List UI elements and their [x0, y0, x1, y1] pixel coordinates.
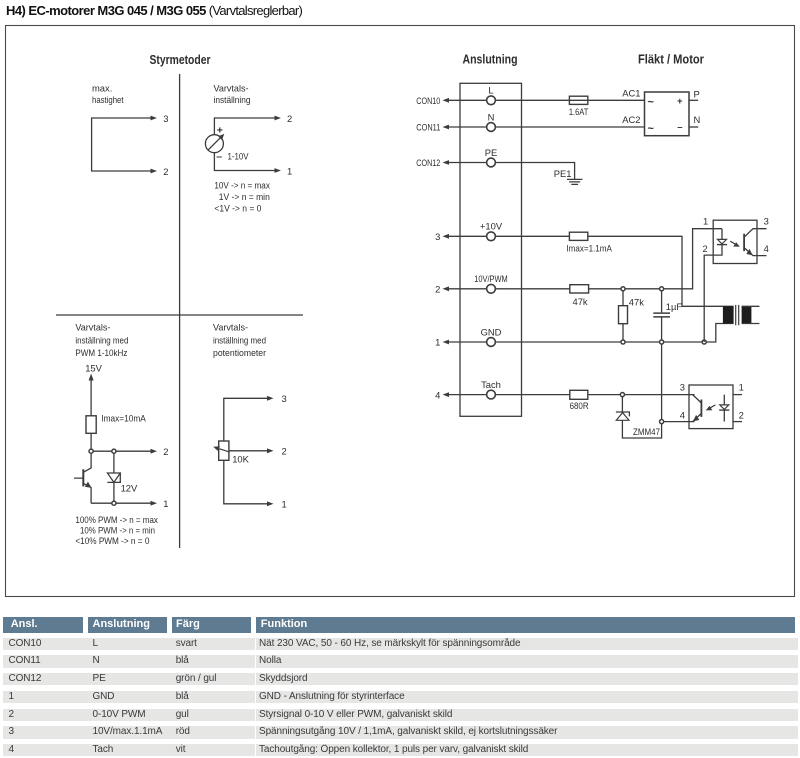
svg-text:inställning med: inställning med — [75, 334, 128, 345]
wire L to motor AC1 — [495, 99, 644, 101]
svg-text:4: 4 — [764, 243, 769, 254]
svg-text:~: ~ — [648, 123, 655, 135]
svg-text:inställning: inställning — [214, 94, 251, 105]
svg-text:ZMM47: ZMM47 — [633, 426, 660, 437]
quadrant divider vertical — [179, 74, 181, 548]
svg-text:Imax=1.1mA: Imax=1.1mA — [566, 242, 612, 253]
arrow to pin 3 — [151, 116, 158, 121]
svg-text:–: – — [677, 122, 682, 133]
svg-text:100% PWM -> n = max: 100% PWM -> n = max — [75, 514, 158, 525]
resistor 680R — [570, 390, 588, 399]
node A — [89, 449, 93, 453]
wire 1 (GND) — [449, 341, 487, 343]
svg-text:Varvtals-: Varvtals- — [75, 322, 110, 333]
svg-text:2: 2 — [739, 409, 744, 420]
wire 10V/PWM to opto pin1 — [495, 229, 722, 289]
svg-text:47k: 47k — [629, 297, 644, 308]
terminal L — [487, 96, 496, 105]
transistor Q1 — [74, 451, 91, 503]
wire opto U2 pin2 — [733, 421, 742, 423]
svg-text:CON12: CON12 — [416, 157, 440, 168]
voltage source V1 1-10V — [205, 135, 223, 153]
svg-text:Imax=10mA: Imax=10mA — [101, 412, 146, 423]
terminal 10V/PWM — [487, 284, 496, 293]
document title — [6, 3, 302, 18]
svg-text:3: 3 — [764, 216, 769, 227]
svg-text:3: 3 — [163, 113, 168, 124]
svg-text:2: 2 — [282, 446, 287, 457]
junction GND-opto pin2 — [702, 340, 706, 344]
svg-text:4: 4 — [680, 409, 685, 420]
svg-text:2: 2 — [435, 284, 440, 295]
svg-text:12V: 12V — [121, 483, 138, 494]
svg-text:N: N — [694, 114, 701, 125]
opto U1 LED — [721, 229, 723, 240]
terminal N — [487, 123, 496, 132]
svg-text:10% PWM -> n = min: 10% PWM -> n = min — [80, 524, 155, 535]
wire pot wiper to pin 2 — [229, 450, 267, 452]
svg-text:P: P — [694, 88, 700, 99]
svg-text:<1V -> n = 0: <1V -> n = 0 — [214, 203, 261, 214]
svg-text:10V -> n = max: 10V -> n = max — [214, 179, 270, 190]
wire resistor to node — [90, 433, 92, 451]
svg-text:GND: GND — [481, 326, 502, 337]
transformer T1 — [723, 306, 734, 323]
wire motor P — [689, 99, 698, 101]
svg-text:1: 1 — [163, 498, 168, 509]
wire to pin 1 — [214, 153, 274, 171]
resistor 47k shunt — [622, 289, 624, 306]
svg-text:+10V: +10V — [480, 221, 503, 232]
wire opto U2 pin1 — [733, 394, 742, 396]
node C — [112, 501, 116, 505]
potentiometer 10K — [219, 441, 229, 460]
junction pin4-zener — [660, 420, 664, 424]
svg-text:max.: max. — [92, 82, 112, 93]
svg-text:–: – — [216, 151, 222, 163]
svg-text:10K: 10K — [232, 453, 249, 464]
opto U1 light arrow — [730, 241, 736, 244]
junction 10V/PWM-1uF — [660, 287, 664, 291]
opto U2 — [689, 385, 733, 429]
opto U2 LED — [723, 395, 725, 405]
fuse F1 1.6AT — [569, 96, 587, 104]
ground PE1 — [567, 179, 582, 184]
svg-text:3: 3 — [282, 393, 287, 404]
svg-text:~: ~ — [648, 97, 655, 109]
terminal GND — [487, 338, 496, 347]
svg-text:1: 1 — [703, 216, 708, 227]
svg-text:10V/PWM: 10V/PWM — [474, 273, 508, 284]
connector box — [460, 83, 522, 416]
opto U2 transistor — [700, 400, 702, 417]
svg-text:15V: 15V — [85, 362, 102, 373]
quadrant divider horizontal — [56, 314, 303, 316]
svg-text:PE1: PE1 — [554, 168, 572, 179]
svg-text:inställning med: inställning med — [213, 334, 266, 345]
wire opto2 pin4 — [662, 421, 695, 423]
arrow to pin 2 — [151, 169, 158, 174]
terminal PE — [487, 158, 496, 167]
node B — [112, 449, 116, 453]
svg-text:1: 1 — [435, 337, 440, 348]
wire motor N — [689, 126, 698, 128]
terminal Tach — [487, 390, 496, 399]
resistor Imax=1.1mA — [569, 232, 587, 240]
table — [0, 0, 1, 1]
svg-text:1: 1 — [287, 165, 292, 176]
svg-text:2: 2 — [163, 446, 168, 457]
zener diode 12V — [113, 451, 115, 473]
wire 4 (Tach) — [449, 394, 487, 396]
svg-text:47k: 47k — [573, 296, 588, 307]
wire GND to transformer — [495, 324, 733, 343]
svg-text:2: 2 — [702, 243, 707, 254]
wire CON11-N — [449, 126, 487, 128]
wire bracket max-speed — [92, 118, 151, 171]
svg-text:Styrmetoder: Styrmetoder — [150, 53, 211, 67]
svg-text:PWM 1-10kHz: PWM 1-10kHz — [75, 347, 127, 358]
opto U1 — [713, 220, 757, 263]
wire pot to pin 3 — [224, 398, 267, 441]
svg-text:L: L — [488, 85, 493, 96]
svg-text:2: 2 — [163, 166, 168, 177]
wire Tach to opto2 pin3 — [495, 394, 694, 396]
wire pot to pin 1 — [224, 460, 267, 504]
wire to pin 2 — [214, 118, 274, 135]
svg-text:1: 1 — [282, 499, 287, 510]
junction GND-47k — [621, 340, 625, 344]
svg-text:hastighet: hastighet — [92, 94, 124, 105]
wire bottom rail to pin 1 — [91, 502, 150, 504]
wire CON12-PE — [449, 162, 487, 164]
svg-text:<10% PWM -> n = 0: <10% PWM -> n = 0 — [75, 535, 149, 546]
svg-text:1µF: 1µF — [666, 301, 683, 312]
svg-text:1V -> n = min: 1V -> n = min — [219, 191, 270, 202]
svg-text:Fläkt / Motor: Fläkt / Motor — [638, 53, 704, 67]
svg-text:3: 3 — [680, 382, 685, 393]
wire 15V to resistor — [90, 380, 92, 416]
svg-text:CON10: CON10 — [416, 95, 440, 106]
svg-text:1-10V: 1-10V — [228, 151, 250, 162]
svg-text:Anslutning: Anslutning — [463, 53, 518, 67]
svg-text:Varvtals-: Varvtals- — [213, 322, 248, 333]
svg-text:Tach: Tach — [481, 379, 501, 390]
svg-text:PE: PE — [485, 147, 498, 158]
svg-text:+: + — [677, 96, 683, 107]
wire 2 (10V/PWM) — [449, 288, 487, 290]
wire PE to ground — [495, 163, 574, 180]
opto U2 light arrow — [710, 405, 716, 408]
wire +10V to transformer — [495, 236, 733, 306]
wire N to motor AC2 — [495, 126, 644, 128]
resistor Imax=10mA — [86, 416, 96, 434]
opto U1 transistor — [743, 234, 745, 251]
resistor 47k series — [570, 285, 589, 293]
svg-text:+: + — [217, 125, 223, 137]
svg-text:Varvtals-: Varvtals- — [214, 82, 249, 93]
svg-text:3: 3 — [435, 231, 440, 242]
wire 3 (+10V) — [449, 235, 487, 237]
terminal +10V — [487, 232, 496, 241]
svg-text:AC1: AC1 — [622, 87, 640, 98]
svg-text:CON11: CON11 — [416, 122, 440, 133]
svg-text:AC2: AC2 — [622, 114, 640, 125]
junction 10V/PWM-47k — [621, 287, 625, 291]
zener ZMM47 — [621, 395, 623, 412]
svg-text:4: 4 — [435, 389, 440, 400]
junction Tach-zener — [620, 393, 624, 397]
svg-text:1.6AT: 1.6AT — [569, 106, 589, 117]
capacitor 1uF — [661, 289, 663, 313]
wire node rail to pin 2 — [91, 450, 150, 452]
wire CON10-L — [449, 99, 487, 101]
svg-text:2: 2 — [287, 113, 292, 124]
motor M1 — [645, 92, 690, 136]
junction GND-1uF — [660, 340, 664, 344]
svg-text:potentiometer: potentiometer — [213, 347, 266, 358]
svg-text:1: 1 — [739, 382, 744, 393]
svg-text:680R: 680R — [570, 400, 589, 411]
svg-text:N: N — [488, 111, 495, 122]
